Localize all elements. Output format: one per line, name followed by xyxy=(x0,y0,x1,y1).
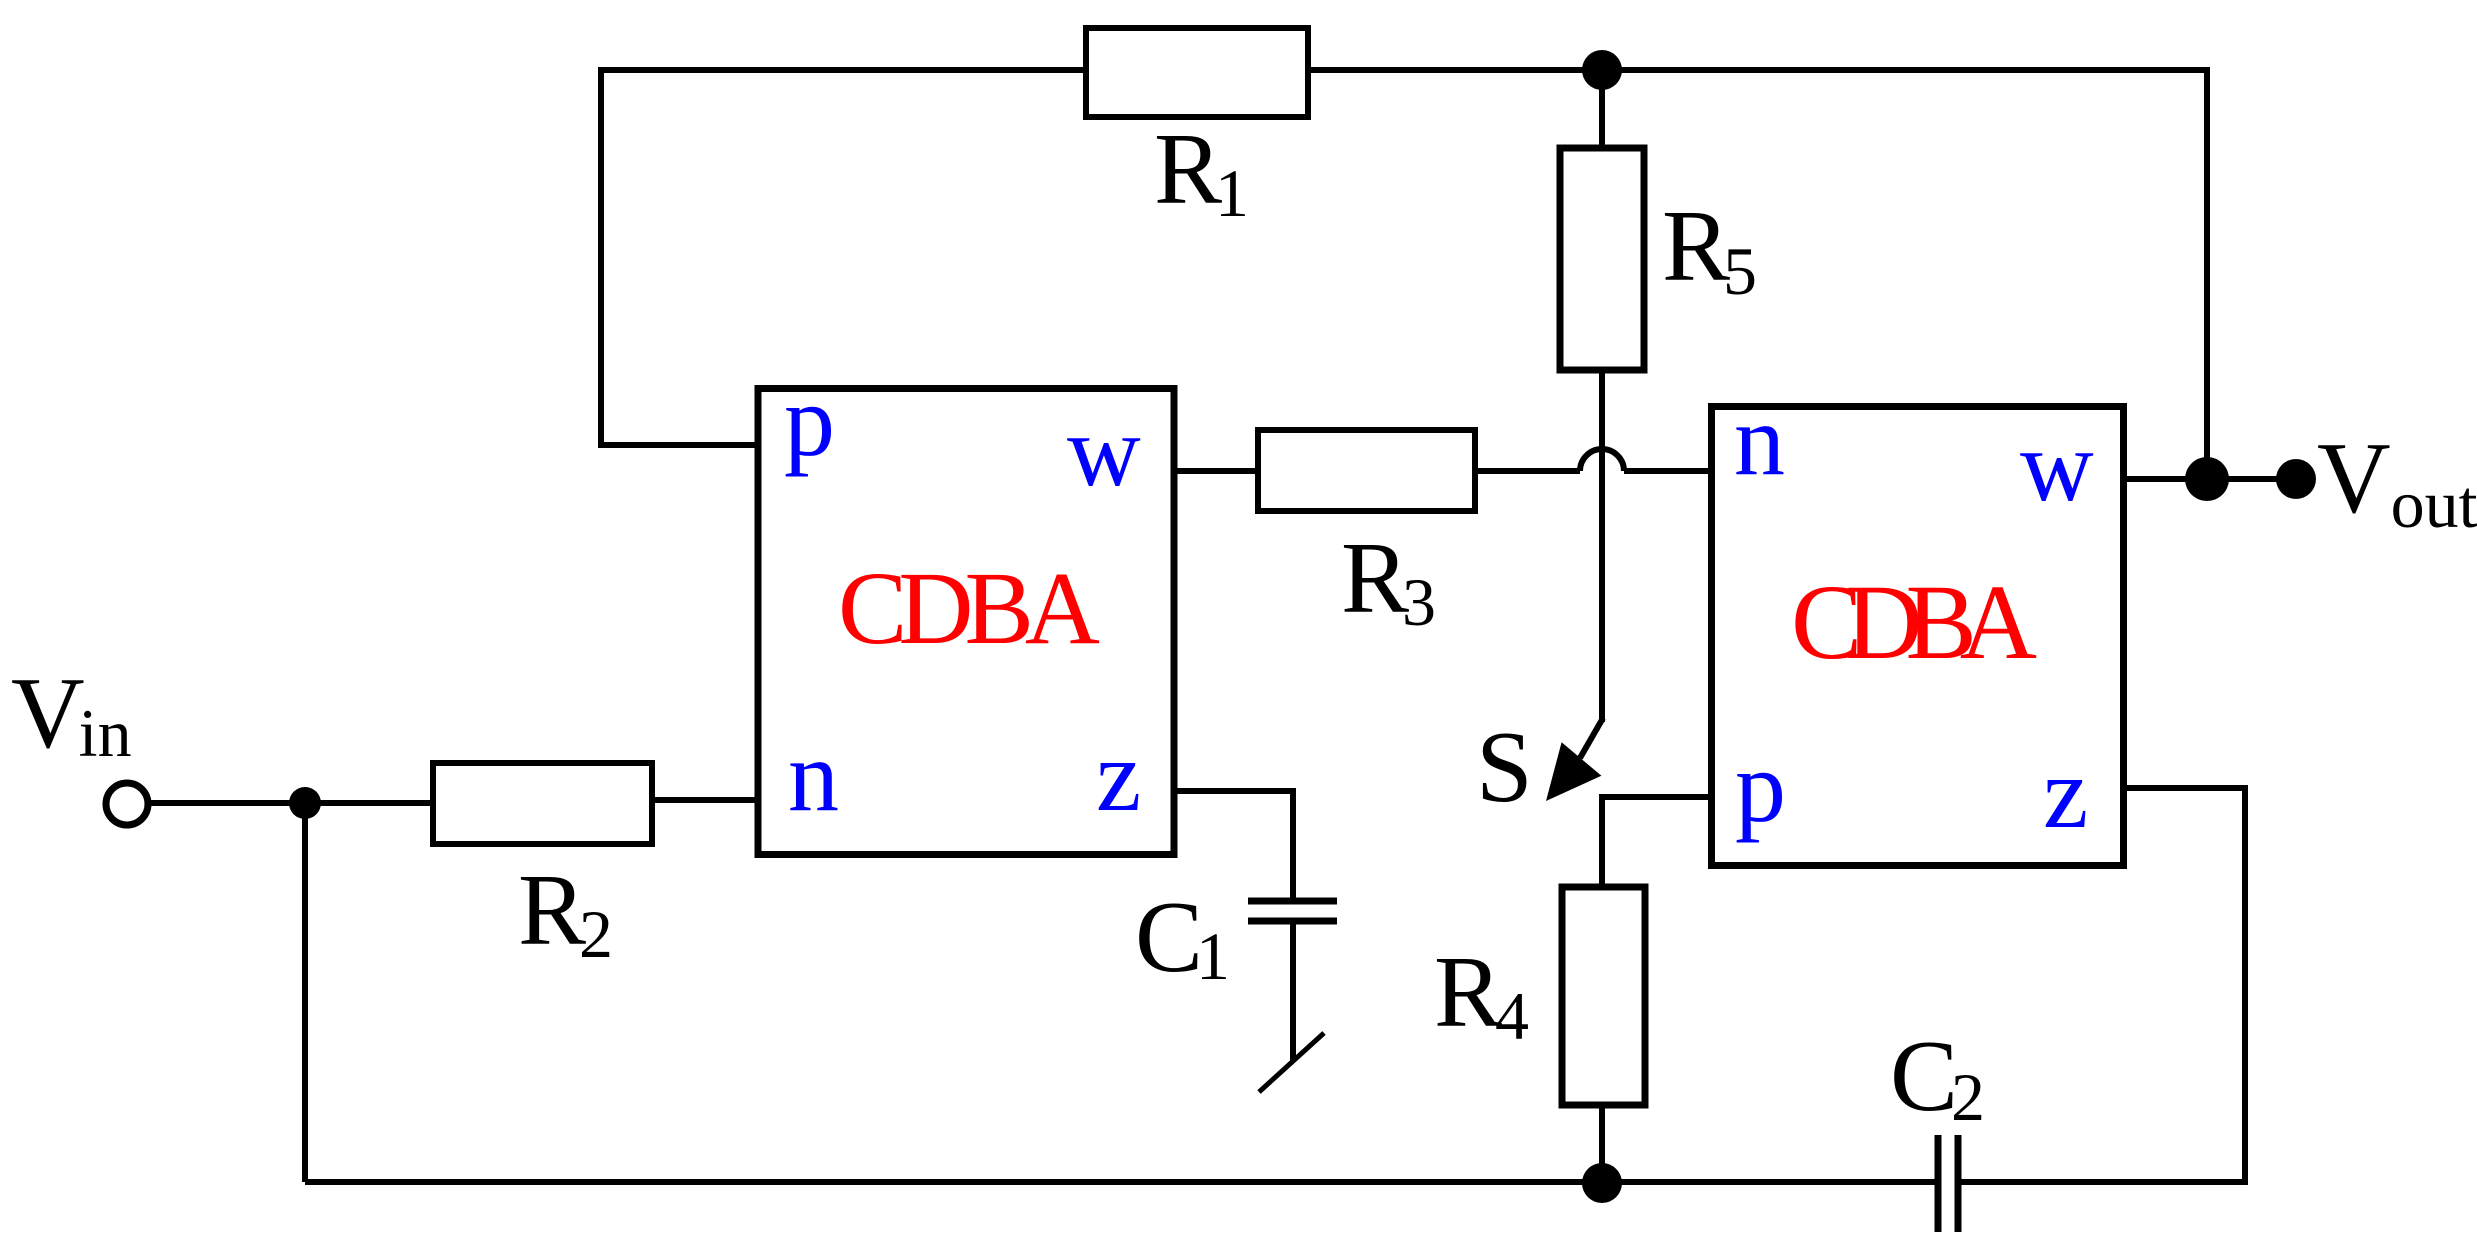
svg-text:C2: C2 xyxy=(1890,1020,1985,1135)
wire: hop to n of U2 xyxy=(1624,468,1712,474)
svg-text:w: w xyxy=(1067,395,1141,508)
wire: z of U1 to C1 xyxy=(1172,791,1293,898)
svg-text:R4: R4 xyxy=(1434,936,1529,1054)
terminal dot: Vout xyxy=(2276,459,2316,499)
svg-text:z: z xyxy=(1096,720,1141,833)
svg-text:n: n xyxy=(1734,384,1785,497)
svg-text:R2: R2 xyxy=(518,854,613,972)
svg-text:w: w xyxy=(2020,410,2094,523)
resistor R1 xyxy=(1086,28,1308,117)
switch S arrowhead xyxy=(1546,742,1601,801)
node Vin input terminal (open circle) xyxy=(106,783,148,825)
junction dot: bottom node xyxy=(1582,1163,1622,1203)
wire: R3 to hop xyxy=(1475,468,1580,474)
wire: Vin junction down to bottom rail xyxy=(302,803,308,1182)
resistor R2 xyxy=(433,763,652,844)
resistor R3 xyxy=(1258,430,1475,511)
wire: C1 bottom open stub xyxy=(1290,924,1296,1061)
junction dot: top node xyxy=(1582,50,1622,90)
op-amp U2 CDBA block xyxy=(1712,407,2124,866)
svg-text:n: n xyxy=(788,720,839,833)
wire: R4 bottom stub xyxy=(1599,1105,1605,1182)
svg-text:CDBA: CDBA xyxy=(838,551,1100,666)
svg-text:R3: R3 xyxy=(1341,522,1436,640)
svg-text:R1: R1 xyxy=(1154,113,1249,231)
resistor R4 xyxy=(1562,887,1645,1105)
wire: vertical from R5 to switch xyxy=(1599,370,1605,722)
junction dot: Vin node xyxy=(289,787,321,819)
svg-text:p: p xyxy=(1735,731,1786,844)
svg-text:Vin: Vin xyxy=(11,657,132,771)
op-amp U1 CDBA block xyxy=(758,389,1174,855)
junction dot: Vout node xyxy=(2185,457,2229,501)
wire: w of U1 to R3 xyxy=(1172,468,1258,474)
wire: w of U2 to output xyxy=(2124,476,2296,482)
wire: top right segment down to Vout node xyxy=(1311,70,2207,479)
svg-text:S: S xyxy=(1476,711,1533,824)
wire: R5 top stub xyxy=(1599,70,1605,150)
wire: Vin terminal to R2 xyxy=(148,800,433,806)
svg-text:C1: C1 xyxy=(1135,881,1230,994)
wire: bottom rail right of C2 up to z of U2 xyxy=(1960,788,2245,1182)
svg-text:R5: R5 xyxy=(1662,190,1757,309)
wire: bottom rail left of C2 xyxy=(305,1179,1935,1185)
capacitor C1 xyxy=(1248,901,1337,921)
switch S blade xyxy=(1580,718,1603,758)
svg-text:z: z xyxy=(2043,737,2088,850)
wire: p-input loop (left vertical + top-left segment) xyxy=(601,70,1083,445)
svg-text:p: p xyxy=(784,365,835,478)
resistor R5 xyxy=(1560,148,1644,370)
open-end slash below C1 xyxy=(1259,1033,1324,1092)
svg-text:Vout: Vout xyxy=(2317,422,2477,542)
wire: R2 to n of U1 xyxy=(652,797,760,803)
wire hop over vertical line xyxy=(1580,449,1624,471)
capacitor C2 xyxy=(1938,1135,1958,1232)
wire: p of U2 down to R4 xyxy=(1602,797,1712,887)
svg-text:CDBA: CDBA xyxy=(1791,564,2037,682)
